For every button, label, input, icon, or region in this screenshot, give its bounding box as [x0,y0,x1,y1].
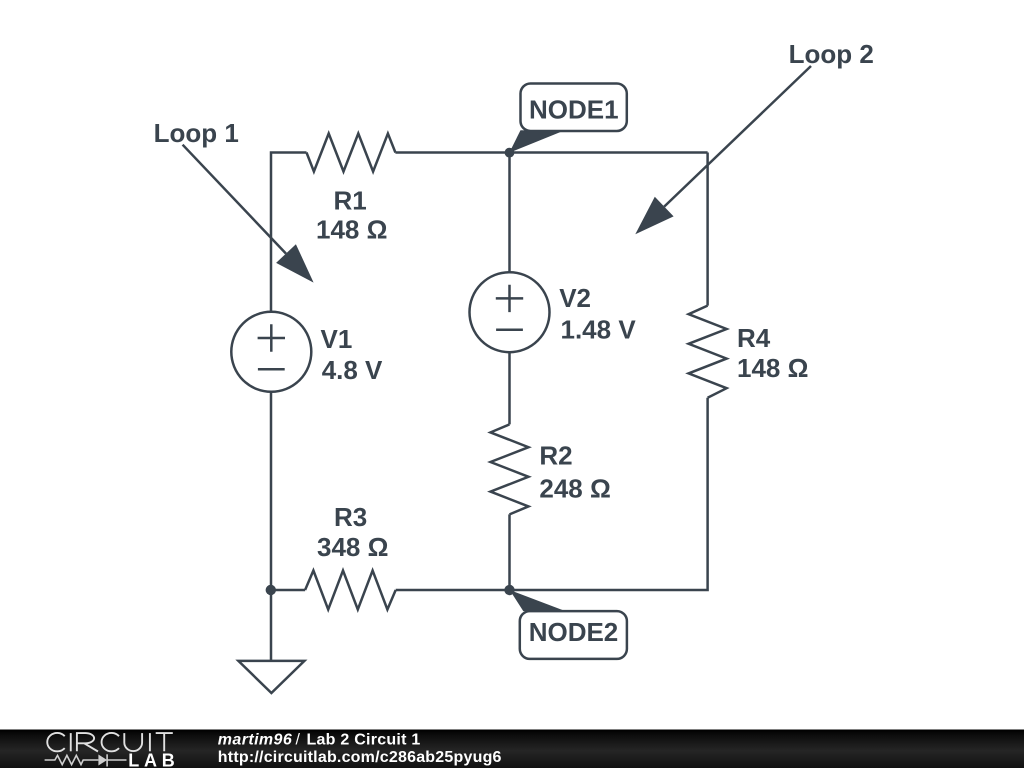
junction dot at NODE2 [504,585,514,595]
V2 minus sign [496,328,523,331]
wire: R2 bottom to NODE2 junction [508,514,511,590]
svg-text:348 Ω: 348 Ω [317,532,388,562]
svg-text:martim96: martim96 [218,732,292,749]
svg-text:248 Ω: 248 Ω [539,474,610,504]
resistor R1 [307,134,396,172]
svg-text:NODE2: NODE2 [529,617,619,647]
annotation Loop 1 arrow line [183,145,286,254]
annotation Loop 1 arrowhead [276,244,314,282]
node label NODE2 box [520,611,627,659]
wire: bottom from R3 right terminal to NODE2 junction [396,589,510,592]
svg-text:Lab 2 Circuit 1: Lab 2 Circuit 1 [307,732,421,749]
resistor R4 [689,306,727,398]
CircuitLab logo word CIRCUIT [47,733,173,752]
annotation Loop 2 arrowhead [635,197,673,235]
svg-text:R4: R4 [737,323,771,353]
wire: left vertical from top-left corner to V1 top terminal [271,153,307,312]
svg-text:NODE1: NODE1 [529,95,619,125]
svg-text:V2: V2 [559,283,591,313]
svg-text:1.48 V: 1.48 V [561,315,637,345]
wire: top from R1 right terminal past NODE1 to top-right corner [395,151,707,154]
svg-text:148 Ω: 148 Ω [737,353,808,383]
node label NODE2 pointer [510,590,566,611]
wire: middle vertical from NODE1 junction to V2 top terminal [508,153,511,273]
svg-text:148 Ω: 148 Ω [316,215,387,245]
junction dot at bottom-left node [266,585,276,595]
svg-text:R2: R2 [539,441,572,471]
resistor R3 [305,571,396,610]
wire: V2 bottom terminal to R2 top [508,352,511,424]
svg-text:4.8 V: 4.8 V [322,355,383,385]
junction dot at NODE1 [505,148,515,158]
V2 plus sign [496,285,523,312]
svg-text:http://circuitlab.com/c286ab25: http://circuitlab.com/c286ab25pyug6 [218,749,502,766]
V1 plus sign [258,324,285,351]
annotation Loop 2 arrow line [664,66,811,207]
svg-text:V1: V1 [321,324,353,354]
svg-text:R1: R1 [334,186,367,216]
ground symbol triangle [238,661,304,693]
svg-text:Loop 2: Loop 2 [789,39,874,69]
wire: right vertical from R4 bottom to bottom-right corner [510,398,708,590]
resistor R2 [491,424,529,514]
svg-text:Loop 1: Loop 1 [154,118,239,148]
wire: right vertical from top-right corner to R4 top [706,153,709,306]
svg-text:LAB: LAB [128,750,179,768]
voltage source V2 (circle) [470,272,550,352]
node label NODE1 box [521,84,627,132]
wire: V1 bottom terminal down through bottom-left junction to ground [270,392,273,661]
V1 minus sign [258,368,285,371]
wire: bottom from left junction to R3 left terminal [271,589,305,592]
CircuitLab logo schematic wire with resistor and diode [45,754,127,766]
svg-text:R3: R3 [334,502,367,532]
node label NODE1 pointer [509,130,563,152]
svg-text:/: / [296,732,301,749]
voltage source V1 (circle) [231,312,311,392]
